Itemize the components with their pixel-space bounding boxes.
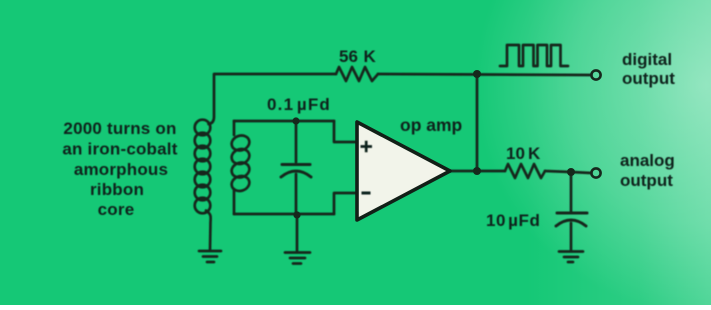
wire primary coil to ground [206, 211, 211, 251]
wire secondary bottom [234, 213, 334, 216]
ground primary [199, 250, 221, 253]
capacitor C2 plates [557, 212, 587, 215]
inductor L2 secondary coil [230, 133, 252, 152]
svg-text:analog: analog [620, 151, 675, 170]
svg-text:0.1 µFd: 0.1 µFd [267, 95, 331, 114]
svg-text:K: K [364, 47, 377, 66]
wire secondary top [234, 120, 334, 123]
op-amp U1 [357, 122, 450, 220]
wire resistor to digital terminal [378, 74, 591, 75]
node junction C1 top [292, 117, 299, 124]
op-amp plus sign [361, 141, 373, 153]
capacitor C1 lead bottom [295, 174, 298, 214]
wire C1 to ground [296, 216, 299, 251]
resistor R2 10K [505, 164, 545, 178]
svg-text:10 µFd: 10 µFd [486, 211, 541, 230]
ground secondary [285, 251, 310, 254]
svg-text:K: K [528, 144, 541, 163]
node junction top feedback [473, 70, 481, 78]
svg-text:digital: digital [622, 50, 672, 69]
terminal analog output [591, 168, 600, 177]
svg-text:an iron-cobalt: an iron-cobalt [62, 140, 177, 159]
op-amp minus sign [362, 192, 371, 195]
node junction analog [567, 168, 575, 176]
svg-text:amorphous: amorphous [74, 160, 168, 179]
node junction C1 bottom [293, 211, 300, 218]
wire to op-amp plus input [334, 121, 357, 142]
svg-text:op amp: op amp [400, 115, 462, 135]
capacitor C1 plates [282, 163, 310, 166]
wire R2 to analog terminal [545, 171, 591, 173]
wire feedback vertical to op-amp output [476, 74, 479, 171]
capacitor C1 0.1uFd lead top [295, 121, 298, 162]
svg-text:56: 56 [339, 47, 358, 66]
svg-text:ribbon: ribbon [90, 180, 144, 199]
ground analog [559, 250, 583, 253]
capacitor C2 10uFd lead top [570, 172, 573, 211]
svg-text:output: output [622, 69, 675, 88]
wire op-amp output [450, 170, 505, 173]
terminal digital output [591, 70, 600, 79]
wire to op-amp minus input [334, 193, 357, 214]
svg-text:2000 turns on: 2000 turns on [63, 119, 176, 138]
svg-text:core: core [98, 200, 135, 219]
secondary loop left vertical wire [233, 121, 236, 135]
capacitor C2 lead bottom [570, 223, 573, 250]
inductor L1 primary coil [195, 120, 211, 136]
node junction op-amp output [473, 167, 481, 175]
svg-text:output: output [620, 171, 673, 190]
wire top feedback from transformer top to digital output [209, 74, 337, 124]
svg-text:10: 10 [506, 144, 525, 163]
resistor R1 56K [336, 67, 378, 81]
square wave symbol [500, 45, 568, 66]
